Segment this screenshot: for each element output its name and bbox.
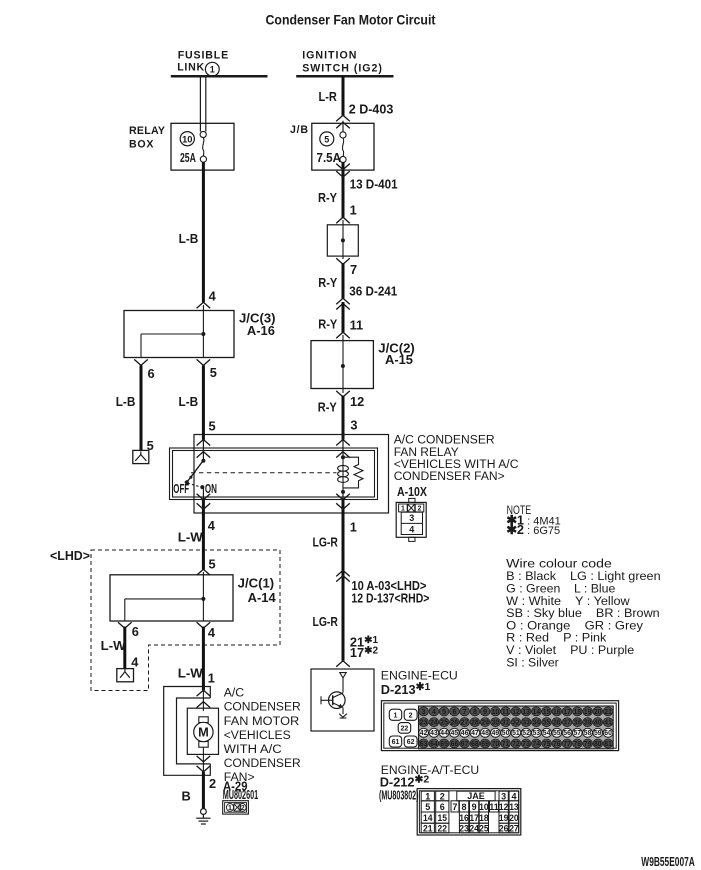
svg-text:81: 81 [604, 741, 612, 748]
svg-text:LINK: LINK [177, 62, 204, 74]
svg-text:64: 64 [430, 741, 438, 748]
svg-text:52: 52 [522, 730, 530, 737]
svg-text:6: 6 [452, 709, 456, 716]
svg-text:46: 46 [461, 730, 469, 737]
svg-text:11: 11 [350, 318, 364, 333]
svg-text:34: 34 [533, 720, 541, 727]
svg-text:A-16: A-16 [247, 323, 275, 338]
svg-text:58: 58 [584, 730, 592, 737]
svg-text:L-W: L-W [178, 665, 204, 680]
svg-text:80: 80 [594, 741, 602, 748]
svg-text:21: 21 [423, 823, 433, 833]
svg-text:18: 18 [574, 709, 582, 716]
svg-text:37: 37 [563, 720, 571, 727]
svg-text:JAE: JAE [467, 791, 485, 801]
svg-text:4: 4 [209, 288, 217, 303]
svg-text:57: 57 [574, 730, 582, 737]
svg-text:R-Y: R-Y [318, 190, 337, 205]
svg-text:12: 12 [512, 709, 520, 716]
svg-text:16: 16 [459, 813, 469, 823]
svg-text:1: 1 [228, 805, 232, 812]
svg-text:74: 74 [533, 741, 541, 748]
svg-text:14: 14 [423, 813, 433, 823]
svg-text:76: 76 [553, 741, 561, 748]
svg-text:25: 25 [440, 720, 448, 727]
svg-text:10: 10 [479, 802, 489, 812]
svg-text:4: 4 [409, 524, 414, 534]
svg-text:R-Y: R-Y [318, 316, 337, 331]
svg-text:40: 40 [594, 720, 602, 727]
svg-text:28: 28 [471, 720, 479, 727]
svg-text:SWITCH (IG2): SWITCH (IG2) [302, 63, 382, 75]
svg-text:33: 33 [522, 720, 530, 727]
svg-text:23: 23 [420, 720, 428, 727]
svg-text:M: M [198, 725, 209, 740]
svg-text:A-15: A-15 [385, 352, 413, 367]
svg-text:1: 1 [425, 791, 430, 801]
svg-text:L-W: L-W [178, 530, 204, 545]
svg-text:13: 13 [522, 709, 530, 716]
svg-text:A/C: A/C [224, 686, 245, 700]
svg-text:47: 47 [471, 730, 479, 737]
svg-text:7: 7 [463, 709, 467, 716]
svg-text:6: 6 [148, 366, 155, 381]
svg-text:44: 44 [440, 730, 448, 737]
svg-text:54: 54 [543, 730, 551, 737]
svg-text:36 D-241: 36 D-241 [349, 284, 397, 299]
svg-text:1: 1 [401, 506, 405, 513]
svg-text:20: 20 [509, 813, 519, 823]
svg-text:26: 26 [499, 823, 509, 833]
svg-text:L-B: L-B [179, 394, 199, 409]
svg-text:19: 19 [584, 709, 592, 716]
svg-text:8: 8 [473, 709, 477, 716]
svg-text:5: 5 [324, 135, 329, 145]
svg-text:32: 32 [512, 720, 520, 727]
svg-text:<VEHICLES: <VEHICLES [224, 728, 291, 742]
svg-text:4: 4 [511, 791, 516, 801]
svg-text:67: 67 [461, 741, 469, 748]
svg-text:1: 1 [210, 65, 215, 75]
svg-text:5: 5 [209, 419, 216, 434]
svg-text:24: 24 [469, 823, 479, 833]
svg-text:R-Y: R-Y [318, 275, 337, 290]
svg-text:2: 2 [409, 712, 413, 719]
svg-text:5: 5 [425, 802, 430, 812]
svg-text:3: 3 [350, 418, 357, 433]
svg-text:7.5A: 7.5A [317, 150, 342, 165]
svg-text:53: 53 [533, 730, 541, 737]
svg-text:LG-R: LG-R [313, 534, 338, 549]
svg-text:22: 22 [401, 726, 409, 733]
svg-text:25A: 25A [180, 150, 196, 165]
svg-text:50: 50 [502, 730, 510, 737]
svg-text:42: 42 [420, 730, 428, 737]
svg-text:12 D-137<RHD>: 12 D-137<RHD> [351, 591, 429, 606]
svg-text:L-W: L-W [101, 638, 127, 653]
svg-text:41: 41 [604, 720, 612, 727]
svg-text:R-Y: R-Y [318, 399, 337, 414]
svg-text:2 D-403: 2 D-403 [349, 101, 394, 116]
svg-text:69: 69 [481, 741, 489, 748]
svg-text:CONDENSER: CONDENSER [224, 756, 301, 770]
svg-text:6: 6 [132, 624, 139, 639]
svg-text:5: 5 [442, 709, 446, 716]
svg-text:38: 38 [574, 720, 582, 727]
svg-text:68: 68 [471, 741, 479, 748]
svg-text:3: 3 [501, 791, 506, 801]
svg-text:19: 19 [499, 813, 509, 823]
svg-text:1: 1 [350, 520, 357, 535]
svg-text:1: 1 [350, 202, 357, 217]
svg-text:48: 48 [481, 730, 489, 737]
svg-text:20: 20 [594, 709, 602, 716]
svg-text:27: 27 [509, 823, 519, 833]
svg-text:62: 62 [407, 739, 415, 746]
svg-text:78: 78 [574, 741, 582, 748]
svg-text:17: 17 [469, 813, 479, 823]
svg-text:55: 55 [553, 730, 561, 737]
svg-text:<LHD>: <LHD> [50, 548, 90, 563]
svg-text:(MU803802): (MU803802) [379, 787, 419, 802]
svg-text:5: 5 [210, 365, 217, 380]
svg-text:36: 36 [553, 720, 561, 727]
svg-text:A-10X: A-10X [397, 484, 427, 499]
svg-text:9: 9 [472, 802, 477, 812]
svg-text:43: 43 [430, 730, 438, 737]
svg-text:51: 51 [512, 730, 520, 737]
svg-text:B: B [182, 789, 191, 804]
svg-text:65: 65 [440, 741, 448, 748]
svg-text:J/C(1): J/C(1) [238, 576, 275, 591]
svg-text:L-R: L-R [319, 89, 337, 104]
svg-text:61: 61 [392, 739, 400, 746]
svg-text:4: 4 [432, 709, 436, 716]
svg-text:2: 2 [209, 776, 216, 791]
svg-text:15: 15 [543, 709, 551, 716]
svg-text:49: 49 [492, 730, 500, 737]
svg-text:L-B: L-B [179, 231, 199, 246]
svg-text:79: 79 [584, 741, 592, 748]
svg-text:3: 3 [422, 709, 426, 716]
svg-text:IGNITION: IGNITION [302, 50, 356, 62]
svg-text:4: 4 [208, 625, 216, 640]
svg-text:13 D-401: 13 D-401 [350, 177, 398, 192]
svg-text:21: 21 [604, 709, 612, 716]
svg-text:26: 26 [451, 720, 459, 727]
svg-text:J/B: J/B [290, 124, 308, 136]
svg-text:WITH A/C: WITH A/C [224, 742, 282, 756]
svg-text:56: 56 [563, 730, 571, 737]
svg-text:OFF: OFF [173, 481, 189, 496]
svg-text:11: 11 [502, 709, 510, 716]
svg-text:LG-R: LG-R [313, 614, 338, 629]
svg-text:18: 18 [479, 813, 489, 823]
svg-text:1: 1 [394, 712, 398, 719]
svg-text:24: 24 [430, 720, 438, 727]
svg-text:3: 3 [409, 513, 414, 523]
svg-text:35: 35 [543, 720, 551, 727]
svg-text:8: 8 [461, 802, 466, 812]
svg-text:22: 22 [438, 823, 448, 833]
svg-text:CONDENSER FAN>: CONDENSER FAN> [394, 469, 505, 483]
svg-text:4: 4 [208, 518, 216, 533]
svg-text:31: 31 [502, 720, 510, 727]
svg-text:73: 73 [522, 741, 530, 748]
svg-text:66: 66 [451, 741, 459, 748]
svg-text:29: 29 [481, 720, 489, 727]
svg-text:RELAY: RELAY [129, 125, 165, 137]
svg-text:11: 11 [489, 802, 499, 812]
svg-text:2: 2 [440, 791, 445, 801]
svg-text:25: 25 [479, 823, 489, 833]
svg-text:60: 60 [604, 730, 612, 737]
svg-text:59: 59 [594, 730, 602, 737]
svg-text:45: 45 [451, 730, 459, 737]
svg-text:2: 2 [418, 506, 422, 513]
svg-text:12: 12 [499, 802, 509, 812]
svg-text:4: 4 [131, 654, 139, 669]
svg-text:FAN MOTOR: FAN MOTOR [224, 714, 300, 728]
svg-text:16: 16 [553, 709, 561, 716]
svg-text:77: 77 [563, 741, 571, 748]
svg-text:17: 17 [563, 709, 571, 716]
svg-text:2: 2 [241, 805, 245, 812]
svg-text:15: 15 [438, 813, 448, 823]
svg-text:10: 10 [182, 134, 192, 144]
svg-text:MU802601: MU802601 [223, 787, 259, 802]
svg-text:SI : Silver: SI : Silver [506, 655, 559, 669]
svg-text:7: 7 [350, 262, 357, 277]
svg-text:10: 10 [492, 709, 500, 716]
svg-text:L-B: L-B [116, 394, 136, 409]
svg-text:27: 27 [461, 720, 469, 727]
svg-text:6: 6 [440, 802, 445, 812]
svg-text:A-14: A-14 [248, 590, 277, 605]
svg-text:71: 71 [502, 741, 510, 748]
svg-text:ON: ON [205, 481, 217, 496]
svg-text:23: 23 [459, 823, 469, 833]
svg-text:7: 7 [452, 802, 457, 812]
svg-text:9: 9 [483, 709, 487, 716]
svg-text:✱2 : 6G75: ✱2 : 6G75 [506, 522, 560, 537]
svg-text:30: 30 [492, 720, 500, 727]
svg-text:72: 72 [512, 741, 520, 748]
svg-text:BOX: BOX [129, 139, 154, 151]
svg-text:5: 5 [209, 557, 216, 572]
svg-text:13: 13 [509, 802, 519, 812]
svg-text:75: 75 [543, 741, 551, 748]
svg-text:CONDENSER: CONDENSER [224, 700, 301, 714]
svg-text:14: 14 [533, 709, 541, 716]
svg-text:Condenser Fan Motor Circuit: Condenser Fan Motor Circuit [266, 12, 436, 27]
svg-text:1: 1 [208, 671, 215, 686]
svg-text:FUSIBLE: FUSIBLE [178, 50, 229, 62]
svg-text:39: 39 [584, 720, 592, 727]
svg-text:W9B55E007A: W9B55E007A [641, 854, 695, 869]
svg-text:12: 12 [350, 394, 364, 409]
svg-text:70: 70 [492, 741, 500, 748]
svg-text:63: 63 [420, 741, 428, 748]
